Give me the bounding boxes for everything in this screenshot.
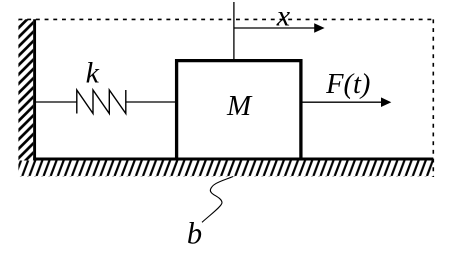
force arrow F(t) head	[381, 97, 391, 107]
displacement arrow x shaft	[234, 27, 316, 29]
svg-text:b: b	[187, 217, 202, 251]
floor edge line	[33, 157, 433, 160]
reference vertical line at mass top	[233, 2, 235, 59]
mass block M	[177, 61, 301, 161]
wire dashed enclosure right	[432, 19, 434, 177]
svg-text:M: M	[226, 90, 253, 122]
wall hatching	[18, 19, 33, 160]
wall edge line	[33, 19, 36, 160]
spring k zigzag	[77, 90, 126, 114]
wire wall to spring	[36, 101, 77, 103]
wire spring to mass	[126, 101, 176, 103]
displacement arrow x head	[314, 23, 324, 32]
svg-text:F(t): F(t)	[325, 69, 370, 100]
svg-text:k: k	[86, 56, 100, 89]
damper leader squiggle	[202, 177, 233, 223]
wire dashed enclosure top	[19, 18, 434, 20]
force arrow F(t) shaft	[301, 101, 382, 103]
svg-text:x: x	[276, 0, 291, 33]
floor hatching	[18, 161, 433, 177]
